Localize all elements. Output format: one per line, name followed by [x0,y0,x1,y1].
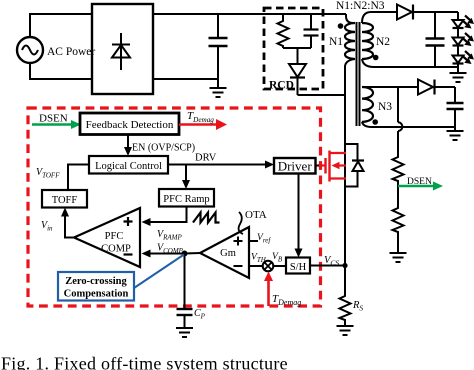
label N1:N2:N3 [336,0,385,12]
svg-text:CP: CP [194,308,206,321]
DSEN arrow right [398,182,443,191]
body diode branch [345,144,364,187]
svg-text:OTA: OTA [245,209,267,221]
svg-text:N3: N3 [378,101,392,113]
label VCS [324,255,339,268]
wire VCOMP node to CP [184,254,186,310]
N3 diode D3 [418,80,455,95]
wire bridge bottom to cap node [153,78,218,80]
DSEN green arrow into feedback [32,120,81,129]
svg-text:TDemag: TDemag [187,110,214,124]
sawtooth waveform [193,213,220,223]
Logical Control block [89,156,168,174]
Feedback Detection block [80,113,179,135]
wire AC top to bridge [30,14,92,37]
snubber diode [289,64,306,95]
dot N1 [338,23,344,29]
TOFF block [42,190,87,208]
wire Gm minus to multiplier [249,265,263,267]
svg-text:EN (OVP/SCP): EN (OVP/SCP) [132,143,195,154]
comparator PFC COMP [74,208,140,267]
wire FD to LC [124,135,132,157]
svg-text:DSEN: DSEN [39,113,68,125]
wire N2 return [374,66,458,68]
PFC Ramp block [159,189,214,207]
capacitor CP [177,309,193,328]
bridge rectifier [92,4,153,94]
wire VTOFF from LC to TOFF [68,165,89,191]
svg-text:PFC: PFC [105,231,124,242]
ground LED [450,73,467,82]
label AC Power [47,46,95,58]
svg-text:TOFF: TOFF [52,195,78,206]
RCD dashed box [264,8,323,89]
svg-text:Fig. 1. Fixed off-time system: Fig. 1. Fixed off-time system structure [1,354,288,370]
blue pointer line [134,255,184,289]
svg-text:N1: N1 [329,36,343,48]
resistor RS [340,294,351,326]
wire Gm out to VCOMP node [185,252,201,255]
MOSFET Q1 [318,151,346,182]
label N1 [329,36,343,48]
wire multiplier to S/H [273,265,286,267]
snubber resistor [278,14,289,48]
wire S/H to VCS node [310,265,345,267]
ground DSEN divider [390,253,407,262]
svg-text:Driver: Driver [278,159,313,174]
svg-text:TDemag: TDemag [272,293,301,307]
svg-text:RCD: RCD [269,80,294,92]
svg-text:PFC Ramp: PFC Ramp [163,194,209,205]
label VTOFF [36,167,60,180]
svg-text:VB: VB [272,252,283,264]
DSEN divider line with hop [398,87,402,155]
svg-text:DSEN: DSEN [407,177,432,187]
wire AC bottom to bridge [30,63,92,79]
Zero-crossing Compensation block [58,272,134,301]
OTA pointer squiggle [239,212,243,234]
label DRV [195,153,217,164]
label N3 [378,101,392,113]
wire Vref stub [249,240,258,242]
label EN (OVP/SCP) [132,143,195,154]
label Vref [257,233,271,245]
wire VCOMP to comparator [142,250,185,258]
svg-text:Feedback Detection: Feedback Detection [86,119,174,131]
transformer N1 primary winding [345,14,355,144]
LED emission arrows [462,16,474,65]
resistor R1 [393,155,404,186]
label VB [272,252,283,264]
IC red dashed box [28,108,321,306]
dot N2 [373,55,379,61]
wire VRAMP from PFC Ramp to comparator [142,207,187,227]
label TDemag bottom [272,293,301,307]
wire Vin comparator out to TOFF [61,208,74,238]
wire RCD return to drain line [298,94,346,96]
node DSEN [397,186,399,206]
TDemag arrow out [179,119,227,130]
label Vin [41,220,53,233]
Driver block [274,158,316,174]
multiplier node [263,261,274,272]
wire bridge top rail [153,13,346,15]
svg-text:Vref: Vref [257,233,271,245]
svg-text:N1:N2:N3: N1:N2:N3 [336,0,385,12]
svg-text:Zero-crossing: Zero-crossing [65,276,127,287]
label VRAMP [157,229,182,242]
ground bulk cap [210,88,227,97]
svg-text:Compensation: Compensation [64,289,129,300]
transformer N3 winding [362,87,373,127]
svg-text:Gm: Gm [220,248,236,259]
wire N3 return [372,126,455,128]
wire DRV to Driver [168,161,274,169]
snubber capacitor [304,14,319,48]
OTA Gm triangle [200,227,249,278]
AC source [17,37,43,63]
label DSEN right [407,177,432,187]
label DSEN left [39,113,68,125]
TDemag red arrow bottom [264,272,273,307]
output capacitor C2 [426,12,445,67]
svg-text:N2: N2 [376,36,390,48]
dot N3 [372,119,378,125]
transformer core [357,22,360,126]
svg-text:S/H: S/H [290,262,307,273]
wire N3 top [362,86,418,88]
svg-text:COMP: COMP [101,244,131,255]
svg-text:VCOMP: VCOMP [157,243,184,256]
bulk capacitor [209,14,228,88]
label OTA [245,209,267,221]
label CP [194,308,206,321]
svg-text:Vin: Vin [41,220,53,233]
ground CP [176,328,193,337]
svg-text:RS: RS [352,300,363,313]
caption [1,354,288,370]
svg-text:DRV: DRV [195,153,217,164]
label RCD [269,80,294,92]
LED string [453,12,464,73]
label VTH [251,253,267,265]
N3 capacitor C3 [447,87,464,131]
wire Driver to S/H [295,174,303,258]
wire Driver to gate [316,165,320,167]
ground N3 cap [447,131,464,140]
svg-text:AC Power: AC Power [47,46,95,58]
svg-text:VTOFF: VTOFF [36,167,60,180]
output diode D2 [397,5,458,20]
label VCOMP [157,243,184,256]
transformer N2 winding [362,12,397,67]
drain line [344,144,346,294]
wire RC join [283,48,311,64]
label RS [352,300,363,313]
node VCOMP junction [182,251,188,257]
S/H block [286,258,310,274]
wire branch to PFC Ramp [182,165,190,190]
svg-text:Logical Control: Logical Control [95,161,162,172]
label TDemag top [187,110,214,124]
label N2 [376,36,390,48]
ground RS [337,326,354,335]
svg-text:VRAMP: VRAMP [157,229,182,242]
junction VCS node [342,263,347,268]
resistor R2 [393,206,404,253]
